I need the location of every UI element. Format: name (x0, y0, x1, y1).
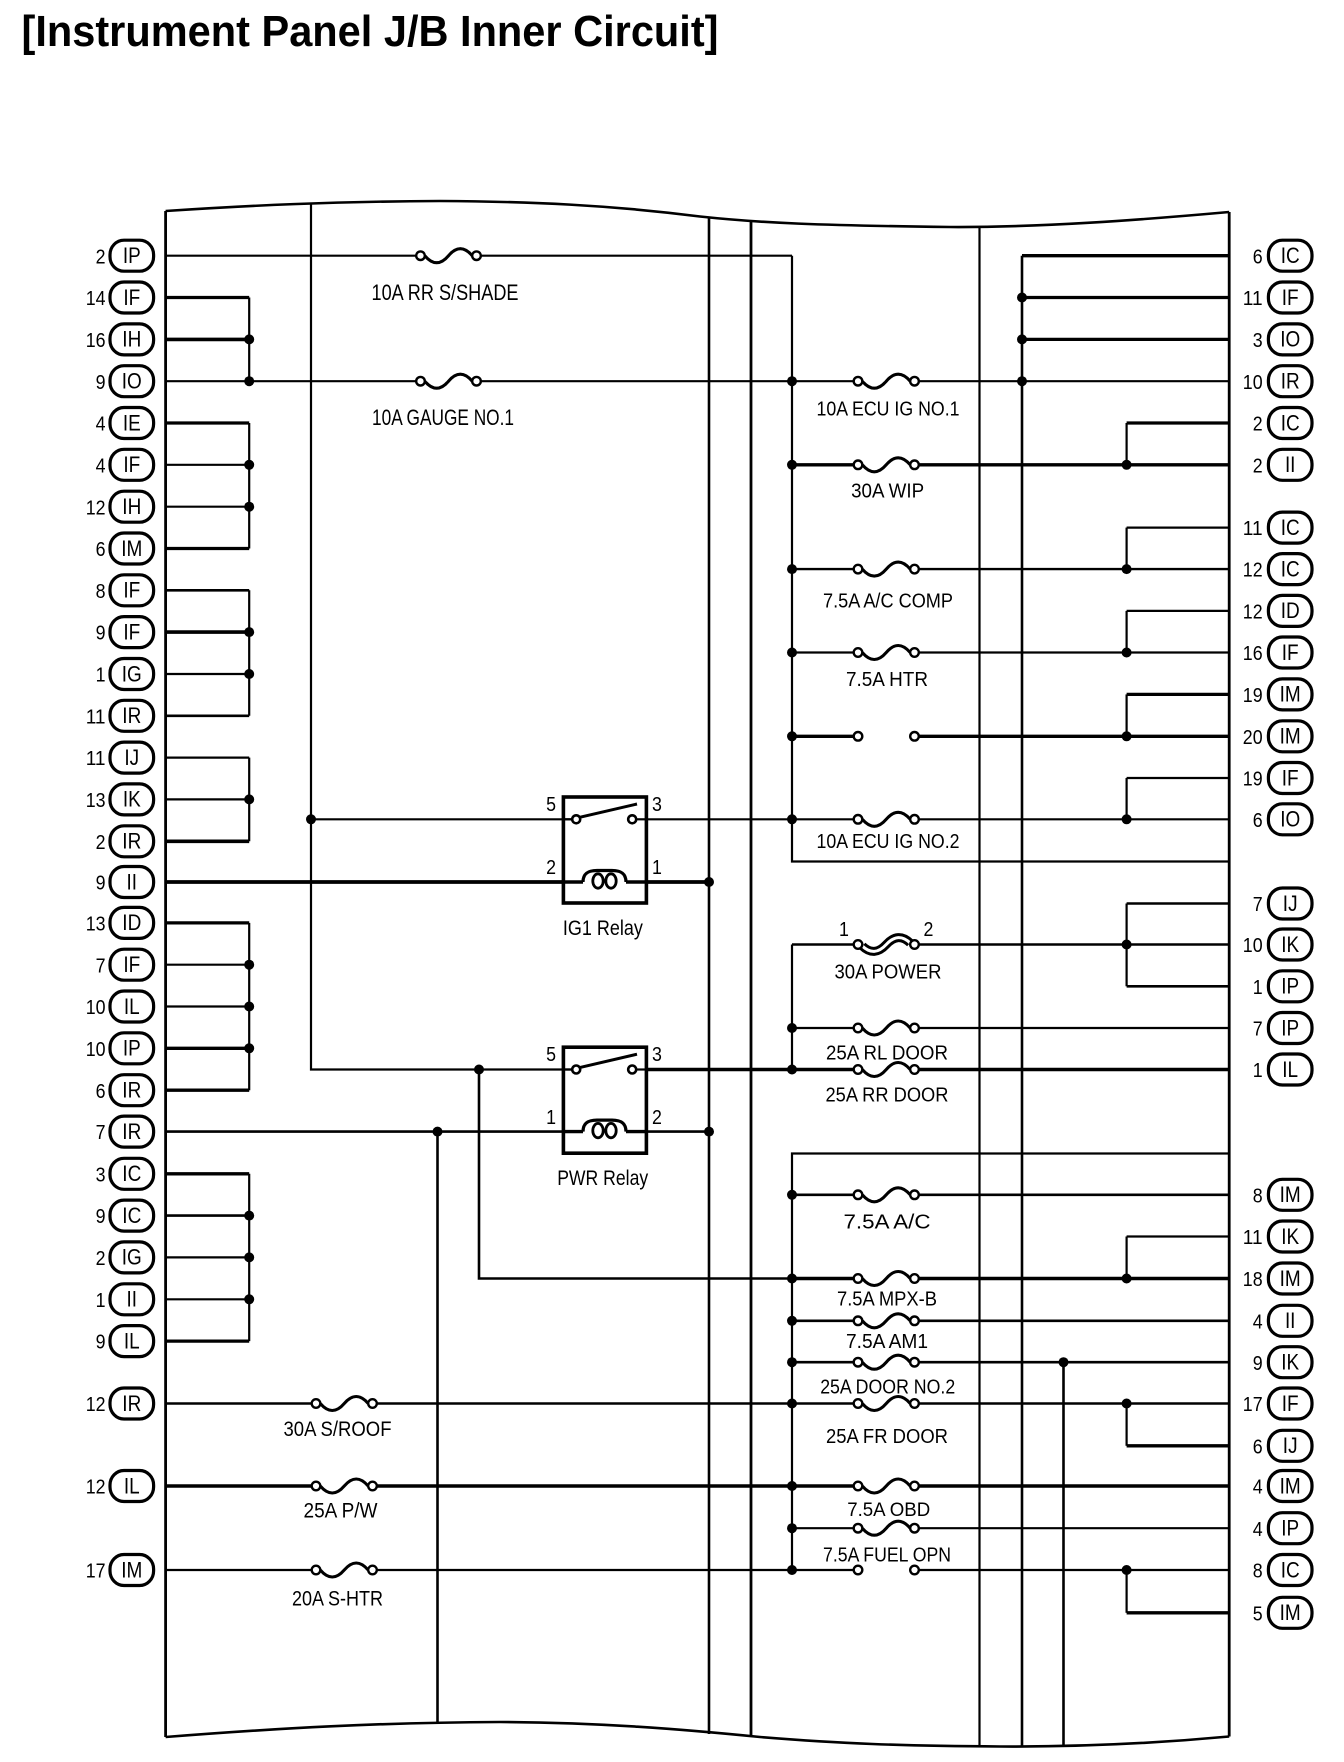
label 30A WIP (851, 480, 924, 503)
wire: stub 12 IH row y=506.7 (166, 506, 250, 508)
svg-text:9: 9 (96, 371, 106, 394)
fuse 7.5A AM1 (854, 1314, 919, 1328)
svg-text:IH: IH (122, 494, 141, 519)
junction at (709,882) (704, 877, 714, 887)
svg-text:12: 12 (86, 1393, 106, 1416)
svg-text:12: 12 (1243, 601, 1263, 624)
fuse 10A GAUGE NO.1 (416, 374, 481, 388)
wire: fuse feed bus segment 1 (x=792, rows 255.7-861.5) to right edge (792, 256, 1229, 862)
wire: stub 9 IL row y=1341.1 (166, 1339, 250, 1342)
fuse 7.5A HTR (854, 646, 919, 660)
wire: stub 10 IP row y=1048.3 (166, 1047, 250, 1050)
svg-text:IG1 Relay: IG1 Relay (563, 916, 643, 940)
svg-text:10: 10 (1243, 371, 1263, 394)
connector pin 4 IM (right, OBD) (1253, 1471, 1312, 1502)
svg-text:13: 13 (86, 789, 106, 812)
junction at elbow bus y=652.5 (1122, 648, 1132, 658)
connector pin 9 IK (right, DOOR NO.2) (1253, 1347, 1312, 1378)
label 25A FR DOOR (826, 1425, 948, 1448)
open fuse terminals (8 IC row) (854, 1566, 919, 1575)
svg-text:II: II (127, 869, 138, 894)
wire: PWR relay pin 2 to coil return line (646, 1130, 709, 1133)
junction at (311,819.3) (306, 814, 316, 824)
junction at stub bus y=1006.5 (244, 1002, 254, 1012)
svg-text:30A WIP: 30A WIP (851, 480, 924, 503)
svg-text:1: 1 (839, 918, 849, 941)
svg-text:IK: IK (123, 787, 141, 812)
junction at (792,1320.8) (787, 1316, 797, 1326)
fuse 20A S-HTR (312, 1563, 377, 1577)
junction at (1022,339.4) (1017, 334, 1027, 344)
connector pin 13 IK (left, stub) (86, 784, 154, 815)
svg-text:9: 9 (96, 1331, 106, 1354)
svg-text:IF: IF (123, 452, 140, 477)
svg-text:7.5A AM1: 7.5A AM1 (846, 1330, 928, 1353)
wire: 7.5A HTR row (y=652.5) (792, 651, 1229, 653)
junction at (792,1069.5) (787, 1065, 797, 1075)
junction at elbow bus y=1278.5 (1122, 1274, 1132, 1284)
svg-text:14: 14 (86, 287, 106, 310)
svg-text:2: 2 (96, 831, 106, 854)
connector pin 11 IJ (left, stub) (86, 742, 154, 773)
svg-text:11: 11 (1243, 287, 1263, 310)
connector pin 14 IF (left, stub) (86, 282, 154, 313)
connector pin 9 IO (left, GAUGE feed) (96, 366, 154, 397)
wire: stub 7 IF row y=964.7 (166, 964, 250, 966)
svg-text:IF: IF (1282, 1391, 1299, 1416)
svg-text:IM: IM (1280, 1182, 1301, 1207)
wire: relay coil return line (x=709) (708, 217, 711, 1735)
IG1 relay pin number 1 (652, 856, 662, 879)
junction at elbow bus y=944.5 (1122, 940, 1132, 950)
junction at (437.5,1131.6) (433, 1127, 443, 1137)
svg-text:7: 7 (1253, 893, 1263, 916)
svg-text:IE: IE (123, 410, 141, 435)
wire: +B feed bus (x=311) to PWR relay pin 5 (311, 205, 572, 1070)
svg-text:IM: IM (1280, 1266, 1301, 1291)
connector pin 8 IF (left, stub) (96, 575, 154, 606)
svg-text:PWR Relay: PWR Relay (557, 1166, 648, 1190)
svg-text:IP: IP (1281, 1015, 1299, 1040)
wire: fuse feed bus segment 2 (x=792, rows 944.5-1069.5) (791, 945, 793, 1070)
junction at (792,381.2) (787, 376, 797, 386)
wire: stub bus vertical group 1 (x=249) (248, 298, 250, 382)
svg-text:1: 1 (546, 1106, 556, 1129)
wire: spare fuse socket 20 IM row row (y=736.3) (792, 735, 1229, 738)
svg-text:IJ: IJ (1283, 1433, 1298, 1458)
svg-text:8: 8 (1253, 1560, 1263, 1583)
junction at elbow bus y=1403.5 (1122, 1399, 1132, 1409)
svg-text:IF: IF (123, 578, 140, 603)
svg-text:IO: IO (122, 369, 142, 394)
wire: stub 4 IF row y=464.8 (166, 464, 250, 466)
label 7.5A AM1 (846, 1330, 928, 1353)
wire: ECU IG NO.2 row to pin 6 IO (792, 818, 1229, 820)
svg-text:3: 3 (1253, 329, 1263, 352)
wire: 9 IO / 10 IR row (y=381.2) across page (166, 380, 1230, 382)
svg-text:5: 5 (546, 1043, 556, 1066)
fuse 7.5A A/C (854, 1188, 919, 1202)
connector pin 7 IP (right, RL DOOR) (1253, 1013, 1312, 1044)
fuse 7.5A A/C COMP (854, 562, 919, 576)
junction at elbow bus y=819.3 (1122, 814, 1132, 824)
wire: 3 IO row (y=339.4) from IG bus (1022, 338, 1229, 341)
wire: IG feed bus (x=1022) (1021, 256, 1024, 1747)
svg-text:IF: IF (1282, 285, 1299, 310)
wire: 9 II row to IG1 relay coil (y=882) (166, 880, 564, 884)
label 30A S/ROOF (284, 1417, 392, 1441)
svg-text:5: 5 (1253, 1602, 1263, 1625)
svg-text:II: II (1285, 452, 1296, 477)
IG1 relay coil (pins 2-1) (563, 871, 646, 889)
junction at (792,736.3) (787, 731, 797, 741)
connector pin 9 II (left, IG1 coil) (96, 867, 154, 898)
svg-text:19: 19 (1243, 768, 1263, 791)
wire: stub 14 IF row y=297.5 (166, 296, 250, 299)
fuse 25A RR DOOR (854, 1063, 919, 1077)
fuse 30A WIP (854, 458, 919, 472)
connector pin 9 IF (left, stub) (96, 617, 154, 648)
fuse 10A ECU IG NO.2 (854, 812, 919, 826)
junction at (792,1403.5) (787, 1399, 797, 1409)
svg-text:16: 16 (86, 329, 106, 352)
svg-text:10A ECU IG NO.1: 10A ECU IG NO.1 (817, 397, 960, 420)
svg-text:IG: IG (122, 661, 142, 686)
svg-text:7: 7 (1253, 1018, 1263, 1041)
svg-text:10: 10 (1243, 934, 1263, 957)
title (22, 7, 719, 56)
IG1 relay pin number 2 (546, 856, 556, 879)
wire: 25A RL DOOR row (y=1028) (792, 1027, 1229, 1029)
PWR relay coil (pins 1-2) (563, 1120, 646, 1138)
connector pin 11 IK (right, MPX-B) (1243, 1221, 1312, 1252)
junction at stub bus y=381.2 (244, 376, 254, 386)
svg-text:10A GAUGE NO.1: 10A GAUGE NO.1 (372, 405, 514, 430)
svg-text:8: 8 (1253, 1184, 1263, 1207)
junction at (792,569.1) (787, 564, 797, 574)
svg-text:1: 1 (96, 1289, 106, 1312)
svg-text:IM: IM (121, 1557, 142, 1582)
connector pin 4 II (right, AM1) (1253, 1305, 1312, 1336)
svg-text:7.5A MPX-B: 7.5A MPX-B (837, 1288, 937, 1311)
svg-text:3: 3 (652, 793, 662, 816)
connector pin 2 II (right, WIP) (1253, 449, 1312, 480)
svg-text:30A S/ROOF: 30A S/ROOF (284, 1417, 392, 1441)
connector pin 1 IP (right, POWER) (1253, 971, 1312, 1002)
svg-text:9: 9 (1253, 1352, 1263, 1375)
svg-text:IO: IO (1280, 327, 1300, 352)
junction at (792,1194.8) (787, 1190, 797, 1200)
connector pin 7 IF (left, stub) (96, 949, 154, 980)
connector pin 10 IL (left, stub) (86, 991, 154, 1022)
wire: stub 16 IH row y=339.4 (166, 338, 250, 342)
svg-text:5: 5 (546, 793, 556, 816)
label 25A P/W (304, 1499, 379, 1523)
connector pin 3 IC (left, stub) (96, 1158, 154, 1189)
connector pin 3 IO (right, IG) (1253, 324, 1312, 355)
svg-text:25A P/W: 25A P/W (304, 1499, 379, 1523)
connector pin 4 IF (left, stub) (96, 449, 154, 480)
svg-text:IF: IF (123, 952, 140, 977)
connector pin 1 II (left, stub) (96, 1284, 154, 1315)
svg-text:17: 17 (86, 1560, 106, 1583)
svg-text:IO: IO (1280, 807, 1300, 832)
wire: 7 IR net down to edge (x=437.5) (436, 1132, 439, 1724)
svg-text:IC: IC (122, 1203, 141, 1228)
label 25A RR DOOR (826, 1084, 949, 1107)
wire: 12 IL / 4 IM row (y=1486) (166, 1484, 1230, 1488)
PWR relay switch contacts and blade (pins 5-3) (563, 1054, 646, 1073)
svg-text:4: 4 (1253, 1518, 1263, 1541)
label 10A GAUGE NO.1 (372, 405, 514, 430)
svg-text:IK: IK (1281, 932, 1299, 957)
svg-text:IM: IM (1280, 724, 1301, 749)
svg-text:10A RR S/SHADE: 10A RR S/SHADE (372, 280, 519, 305)
svg-text:IC: IC (1281, 243, 1300, 268)
wire: stub 8 IF row y=590.3 (166, 589, 250, 592)
wire: stub 11 IR row y=715.8 (166, 714, 250, 717)
svg-text:1: 1 (1253, 976, 1263, 999)
junction at (1063.5,1362.2) (1059, 1357, 1069, 1367)
wire: PWR relay pin5 net to MPX-B feed (x=479) (479, 1070, 792, 1279)
junction at (1022,297.5) (1017, 293, 1027, 303)
wire: stub bus vertical group 4 (x=249) (248, 758, 250, 842)
svg-text:11: 11 (86, 705, 106, 728)
wire: stub 9 IF row y=632.1 (166, 630, 250, 634)
label 25A RL DOOR (826, 1042, 948, 1065)
svg-text:IC: IC (1281, 556, 1300, 581)
connector pin 17 IM (left, S-HTR) (86, 1555, 154, 1586)
connector pin 4 IE (left, stub) (96, 408, 154, 439)
junction at (792,1570) (787, 1565, 797, 1575)
junction at stub bus y=1257.4 (244, 1252, 254, 1262)
fuse 10A ECU IG NO.1 (854, 374, 919, 388)
svg-text:2: 2 (96, 1247, 106, 1270)
label 7.5A A/C COMP (823, 590, 953, 613)
connector pin 16 IH (left, stub) (86, 324, 154, 355)
svg-text:IF: IF (123, 285, 140, 310)
junction at elbow bus y=736.3 (1122, 731, 1132, 741)
label 25A DOOR NO.2 (820, 1375, 955, 1398)
svg-text:ID: ID (1281, 598, 1300, 623)
J/B box top edge (wavy) (166, 201, 1230, 227)
svg-text:4: 4 (1253, 1476, 1263, 1499)
label 20A S-HTR (292, 1586, 383, 1610)
wire: fuse feed bus segment 3 (x=792, rows 1153.5-1570) from right edge (792, 1154, 1229, 1571)
connector pin 10 IP (left, stub) (86, 1033, 154, 1064)
connector pin 6 IR (left, stub) (96, 1075, 154, 1106)
wire: stub bus vertical group 3 (x=249) (248, 590, 250, 716)
PWR relay pin number 2 (652, 1106, 662, 1129)
wire: 25A DOOR NO.2 row (y=1362.2) (792, 1361, 1229, 1364)
connector pin 20 IM (right, spare) (1243, 721, 1312, 752)
wire: stub bus vertical group 2 (x=249) (248, 423, 250, 549)
junction at stub bus y=799.4 (244, 794, 254, 804)
wire: 12 ID elbow to 16 IF net (1127, 611, 1230, 653)
junction at elbow bus y=569.1 (1122, 564, 1132, 574)
connector pin 12 ID (right, HTR) (1243, 595, 1312, 626)
connector pin 4 IP (right, FUEL OPN) (1253, 1513, 1312, 1544)
svg-text:IR: IR (122, 703, 141, 728)
junction at (479,1069.5) (474, 1065, 484, 1075)
connector pin 9 IC (left, stub) (96, 1200, 154, 1231)
connector pin 6 IJ (right, FR DOOR) (1253, 1430, 1312, 1461)
svg-text:IF: IF (1282, 640, 1299, 665)
svg-text:9: 9 (96, 872, 106, 895)
svg-text:19: 19 (1243, 684, 1263, 707)
J/B box bottom edge (wavy) (166, 1722, 1230, 1747)
connector pin 12 IL (left, P/W) (86, 1471, 154, 1502)
connector pin 6 IC (right, IG) (1253, 240, 1312, 271)
svg-text:20: 20 (1243, 726, 1263, 749)
svg-text:1: 1 (652, 856, 662, 879)
connector pin 2 IR (left, stub) (96, 826, 154, 857)
wire: 6 IC row (y=255.7) from IG bus (1022, 254, 1229, 257)
svg-text:11: 11 (86, 747, 106, 770)
junction at (792,1362.2) (787, 1357, 797, 1367)
fuse 10A RR S/SHADE (416, 249, 481, 263)
IG1 relay pin number 3 (652, 793, 662, 816)
svg-text:IP: IP (123, 243, 141, 268)
junction at (1022,381.2) (1017, 376, 1027, 386)
svg-text:IG: IG (122, 1245, 142, 1270)
wire: 7 IJ elbow row (y=903.5) (1127, 904, 1230, 987)
svg-text:3: 3 (96, 1163, 106, 1186)
junction at stub bus y=674 (244, 669, 254, 679)
svg-text:25A RR DOOR: 25A RR DOOR (826, 1084, 949, 1107)
wire: 7.5A A/C row (y=1194.8) (792, 1194, 1229, 1197)
svg-text:6: 6 (1253, 1435, 1263, 1458)
svg-text:2: 2 (652, 1106, 662, 1129)
svg-text:IR: IR (122, 829, 141, 854)
wire: 30A POWER row (y=944.5) (792, 943, 1229, 946)
label IG1 Relay (563, 916, 643, 940)
svg-text:1: 1 (1253, 1059, 1263, 1082)
wire: 2 IP row (y=255.7) to fuse bus (166, 255, 792, 257)
svg-text:[Instrument Panel J/B Inner Ci: [Instrument Panel J/B Inner Circuit] (22, 7, 719, 56)
svg-text:9: 9 (96, 622, 106, 645)
svg-text:9: 9 (96, 1205, 106, 1228)
wire: stub bus vertical group 5 (x=249) (248, 923, 250, 1090)
label 7.5A A/C (844, 1210, 931, 1233)
svg-text:3: 3 (652, 1043, 662, 1066)
connector pin 11 IC (right, A/C COMP) (1243, 512, 1312, 543)
svg-text:10: 10 (86, 996, 106, 1019)
connector pin 10 IK (right, POWER) (1243, 929, 1312, 960)
junction at (792,464.8) (787, 460, 797, 470)
fuse 25A FR DOOR (854, 1397, 919, 1411)
svg-text:2: 2 (96, 245, 106, 268)
svg-text:IJ: IJ (124, 745, 139, 770)
partition line (x=979.5) (978, 227, 980, 1747)
svg-text:IR: IR (1281, 369, 1300, 394)
svg-text:6: 6 (96, 1080, 106, 1103)
svg-text:25A DOOR NO.2: 25A DOOR NO.2 (820, 1375, 955, 1398)
junction at stub bus y=464.8 (244, 460, 254, 470)
svg-text:7: 7 (96, 954, 106, 977)
svg-text:20A S-HTR: 20A S-HTR (292, 1586, 383, 1610)
svg-text:25A RL DOOR: 25A RL DOOR (826, 1042, 948, 1065)
fuse 7.5A OBD (854, 1479, 919, 1493)
wire: 7 IR row to PWR relay coil (y=1131.6) (166, 1130, 564, 1133)
svg-text:7: 7 (96, 1121, 106, 1144)
svg-text:IP: IP (123, 1036, 141, 1061)
svg-text:4: 4 (1253, 1310, 1263, 1333)
svg-text:ID: ID (122, 910, 141, 935)
svg-text:7.5A FUEL OPN: 7.5A FUEL OPN (823, 1543, 951, 1566)
junction at (709,1131.6) (704, 1127, 714, 1137)
svg-text:IL: IL (124, 1328, 140, 1353)
label 10A RR S/SHADE (372, 280, 519, 305)
connector pin 6 IO (right, ECU IG NO.2) (1253, 804, 1312, 835)
label 10A ECU IG NO.1 (817, 397, 960, 420)
connector pin 5 IM (right, spare) (1253, 1597, 1312, 1628)
svg-text:IM: IM (1280, 1473, 1301, 1498)
svg-text:IC: IC (122, 1161, 141, 1186)
open fuse terminals (spare fuse socket 20 IM row) (854, 732, 919, 741)
connector pin 1 IG (left, stub) (96, 659, 154, 690)
label 10A ECU IG NO.2 (817, 830, 960, 853)
junction at stub bus y=1048.3 (244, 1043, 254, 1053)
connector pin 18 IM (right, MPX-B) (1243, 1263, 1312, 1294)
svg-text:IC: IC (1281, 410, 1300, 435)
junction at stub bus y=964.7 (244, 960, 254, 970)
30A POWER pin number 1 (839, 918, 849, 941)
connector pin 7 IR (left, PWR coil) (96, 1116, 154, 1147)
svg-text:12: 12 (1243, 559, 1263, 582)
svg-text:IK: IK (1281, 1350, 1299, 1375)
label PWR Relay (557, 1166, 648, 1190)
svg-text:12: 12 (86, 1476, 106, 1499)
junction at stub bus y=506.7 (244, 502, 254, 512)
fuse 25A P/W (312, 1479, 377, 1493)
wire: stub 13 IK row y=799.4 (166, 798, 250, 800)
junction at stub bus y=632.1 (244, 627, 254, 637)
svg-text:IR: IR (122, 1391, 141, 1416)
wire: IG1 relay pin 3 to ECU IG NO.2 fuse (y=819.3) (646, 818, 792, 820)
junction at elbow bus y=1570 (1122, 1565, 1132, 1575)
connector pin 2 IG (left, stub) (96, 1242, 154, 1273)
connector pin 11 IR (left, stub) (86, 700, 154, 731)
svg-text:IK: IK (1281, 1224, 1299, 1249)
svg-text:16: 16 (1243, 642, 1263, 665)
wire: stub 6 IM row y=548.5 (166, 547, 250, 550)
svg-text:6: 6 (1253, 245, 1263, 268)
wire: 30A WIP row (y=464.8) (792, 463, 1229, 466)
wire: PWR relay pin 3 to RR DOOR row (y=1069.5) (646, 1068, 1229, 1072)
svg-text:IM: IM (121, 536, 142, 561)
wire: stub bus vertical group 6 (x=249) (248, 1174, 250, 1341)
IG1 relay pin number 5 (546, 793, 556, 816)
wire: 5 IM elbow to 8 IC net (1127, 1570, 1230, 1613)
wire: stub 10 IL row y=1006.5 (166, 1005, 250, 1007)
svg-text:30A POWER: 30A POWER (835, 961, 942, 984)
svg-text:11: 11 (1243, 517, 1263, 540)
30A POWER pin number 2 (924, 918, 934, 941)
connector pin 2 IP (left, RR S/SHADE feed) (96, 240, 154, 271)
wire: 12 IR / 17 IF row (y=1403.5) (166, 1402, 1230, 1404)
label 30A POWER (835, 961, 942, 984)
svg-text:IR: IR (122, 1078, 141, 1103)
wire: 11 IC elbow to 12 IC net (1127, 528, 1230, 570)
wire: stub 2 IG row y=1257.4 (166, 1256, 250, 1258)
wire: 7.5A MPX-B row (y=1278.5) (792, 1277, 1229, 1280)
wire: stub 6 IR row y=1090.2 (166, 1089, 250, 1092)
wire: 7.5A A/C COMP row (y=569.1) (792, 568, 1229, 570)
svg-text:IP: IP (1281, 1516, 1299, 1541)
svg-text:IL: IL (124, 1473, 140, 1498)
label 7.5A FUEL OPN (823, 1543, 951, 1566)
